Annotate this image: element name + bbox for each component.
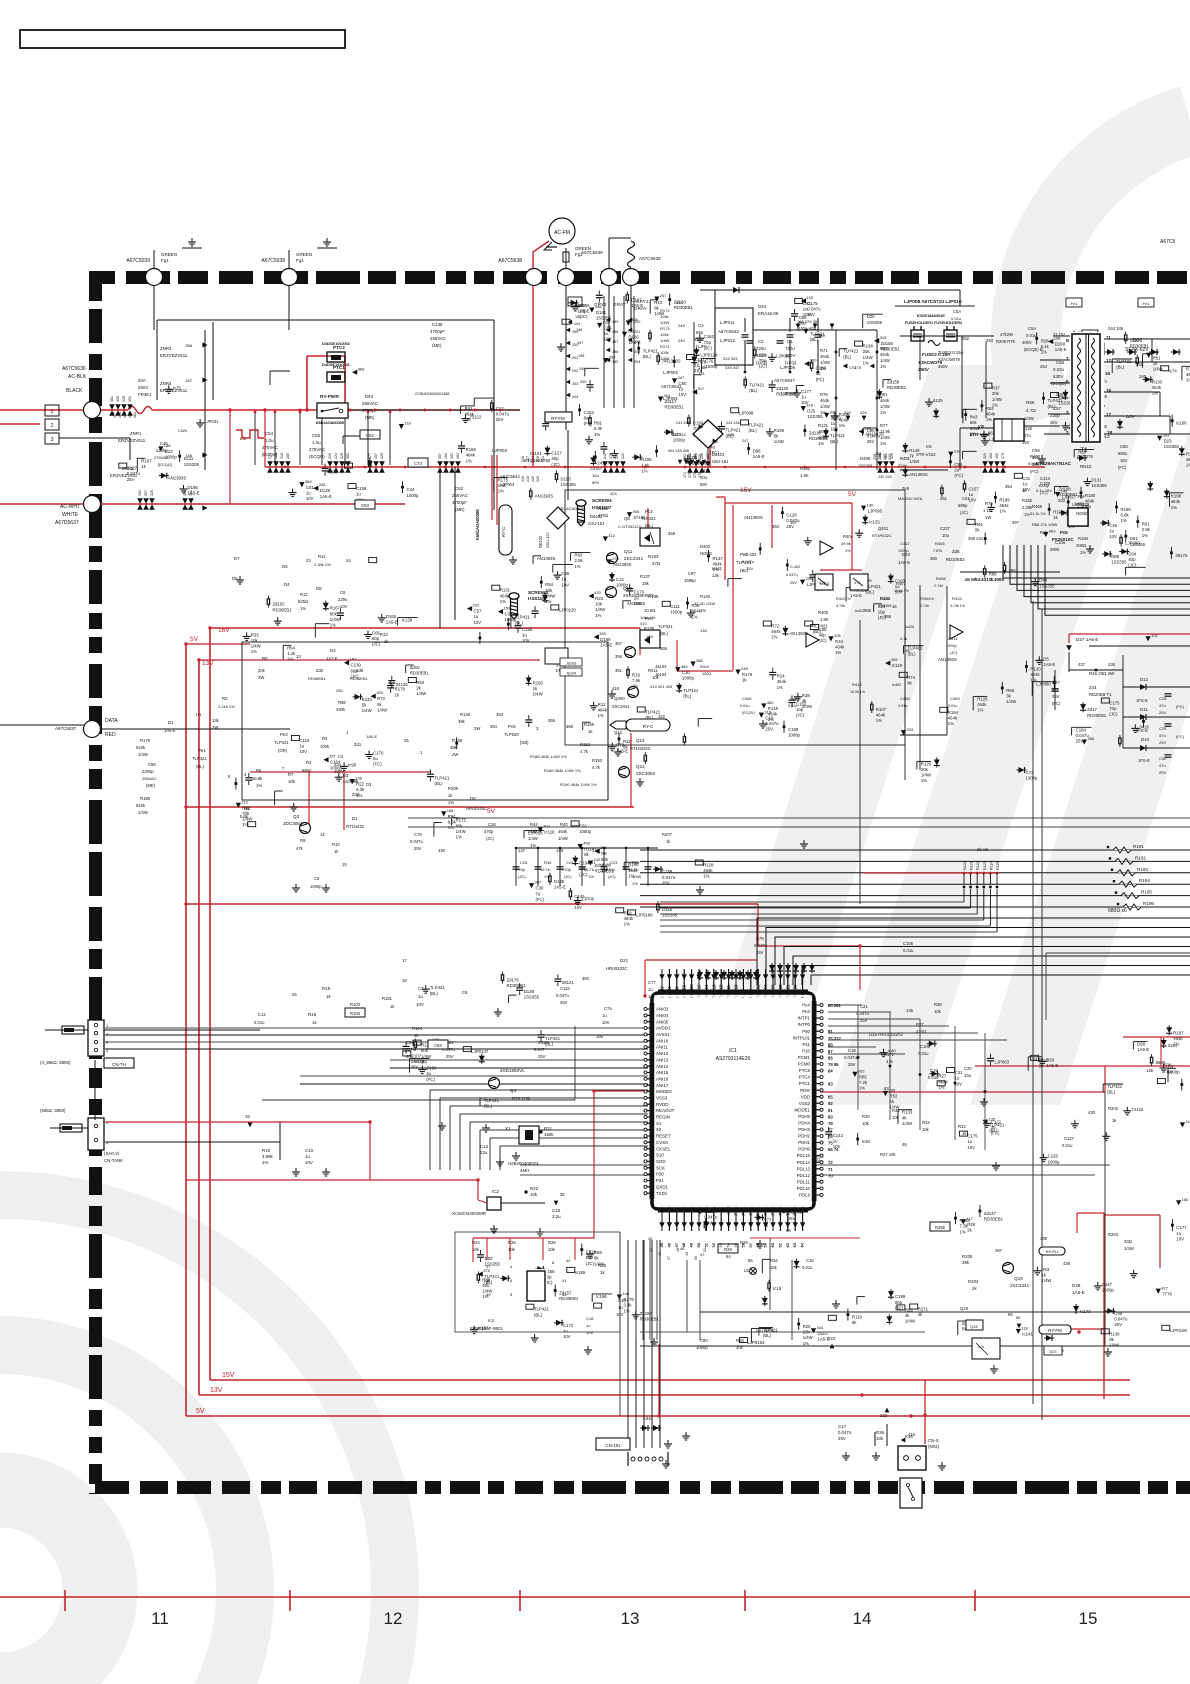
svg-text:516k: 516k [136,803,146,808]
svg-text:C62: C62 [455,486,464,491]
svg-text:AN1393S: AN1393S [744,515,763,520]
svg-text:315: 315 [880,335,887,340]
svg-text:0.047u: 0.047u [867,434,881,439]
svg-text:47u: 47u [1159,703,1166,708]
svg-text:0.01u: 0.01u [802,1265,813,1270]
svg-text:WHITE: WHITE [62,512,79,518]
svg-text:C5A: C5A [1028,326,1036,331]
svg-text:49: 49 [685,1252,689,1256]
svg-text:91: 91 [828,1029,833,1034]
svg-text:R121: R121 [970,861,974,870]
svg-text:R34: R34 [770,1258,778,1263]
svg-text:464k: 464k [1030,672,1040,677]
svg-text:80k: 80k [330,611,338,616]
svg-text:366: 366 [864,608,872,613]
svg-text:464k: 464k [598,707,608,712]
svg-text:47k2W: 47k2W [1000,332,1013,337]
svg-text:1%: 1% [598,713,604,718]
svg-text:50p: 50p [586,1255,594,1260]
svg-text:1000p: 1000p [1026,776,1039,781]
svg-text:PDL11: PDL11 [797,1179,811,1184]
svg-text:C199: C199 [895,1294,906,1299]
svg-text:1A5-E: 1A5-E [1043,662,1055,667]
svg-text:Q401: Q401 [878,526,889,531]
svg-text:Ic462: Ic462 [892,683,901,687]
svg-text:R123: R123 [983,861,987,870]
svg-text:D126: D126 [320,488,331,493]
svg-text:0.01u: 0.01u [740,704,750,708]
svg-text:50: 50 [696,1242,701,1247]
svg-text:1A5-E: 1A5-E [366,734,377,739]
svg-text:C408: C408 [900,696,910,701]
svg-text:RM: RM [1078,494,1085,499]
svg-text:(BL): (BL) [660,631,669,636]
svg-text:CN-TANK: CN-TANK [104,1158,123,1163]
svg-text:10V: 10V [1109,534,1117,539]
svg-text:1/4W: 1/4W [921,773,932,778]
svg-text:C77: C77 [648,980,656,985]
svg-text:AN1393S: AN1393S [168,476,187,481]
svg-text:LJP0147: LJP0147 [471,1049,489,1054]
svg-text:39k: 39k [962,1260,970,1265]
svg-text:1/4W: 1/4W [1153,367,1164,372]
svg-text:10V: 10V [299,749,307,754]
svg-text:357: 357 [615,641,623,646]
svg-text:D88: D88 [1111,554,1119,559]
svg-text:Q18: Q18 [970,1325,977,1329]
svg-text:Q12: Q12 [636,764,645,769]
svg-text:R194: R194 [948,710,959,715]
svg-text:464k: 464k [938,1079,948,1084]
svg-text:C76: C76 [705,359,713,364]
svg-text:224 333: 224 333 [723,356,738,361]
svg-text:R31: R31 [892,1108,900,1113]
svg-text:25V: 25V [496,417,504,422]
svg-text:C80: C80 [819,627,827,632]
svg-text:C155: C155 [522,627,533,632]
svg-text:1/4W: 1/4W [880,358,890,363]
svg-text:R39: R39 [632,860,640,865]
svg-text:220: 220 [531,476,535,482]
svg-text:25V: 25V [560,1000,568,1005]
svg-text:R78: R78 [985,501,993,506]
svg-text:366: 366 [566,724,574,729]
svg-text:3.74k 1%: 3.74k 1% [950,604,966,608]
svg-text:1A5-E: 1A5-E [164,728,176,733]
svg-text:222: 222 [621,453,625,459]
svg-text:AC-FM: AC-FM [554,230,570,236]
svg-text:1%: 1% [977,708,983,713]
svg-text:PDL15: PDL15 [797,1153,811,1158]
svg-text:199: 199 [572,330,578,334]
svg-text:(BL): (BL) [534,1312,543,1317]
svg-text:3: 3 [51,437,54,443]
svg-text:275VAC: 275VAC [154,455,169,460]
svg-text:HSS1167: HSS1167 [528,596,548,601]
svg-text:77: 77 [828,1128,833,1133]
svg-text:D155: D155 [662,907,673,912]
svg-text:C3: C3 [698,323,704,328]
svg-text:104: 104 [574,322,580,326]
svg-text:R5: R5 [262,656,268,661]
svg-text:64: 64 [726,1254,731,1259]
svg-text:1u: 1u [1176,1231,1181,1236]
svg-text:R174: R174 [660,344,670,349]
svg-text:R54: R54 [545,582,553,587]
svg-text:0.01u: 0.01u [903,948,914,953]
svg-text:2.5k: 2.5k [575,558,584,563]
svg-text:1%: 1% [820,366,826,371]
svg-text:R492: R492 [800,466,811,471]
svg-text:1u: 1u [305,1154,310,1159]
svg-text:0.047u: 0.047u [838,1430,852,1435]
svg-text:339 347: 339 347 [725,365,740,370]
svg-text:D135: D135 [554,879,565,884]
svg-text:FUSEHOLDER1 FUSEHOLDER2: FUSEHOLDER1 FUSEHOLDER2 [905,321,962,325]
svg-text:1/4W: 1/4W [1024,416,1034,421]
svg-text:10u: 10u [942,533,950,538]
svg-text:10V: 10V [306,496,314,501]
svg-text:MA4047-MTA: MA4047-MTA [898,496,923,501]
svg-text:464k: 464k [948,715,958,720]
svg-text:C16: C16 [618,1298,626,1303]
svg-text:PCM1: PCM1 [798,1055,811,1060]
svg-text:25V: 25V [1159,740,1166,745]
svg-text:4700pF: 4700pF [452,500,467,505]
svg-text:15V: 15V [222,1372,235,1379]
svg-text:47: 47 [667,1256,671,1260]
svg-text:10k: 10k [548,1247,556,1252]
svg-text:383: 383 [582,976,590,981]
svg-text:229u: 229u [338,597,348,602]
svg-text:152: 152 [450,453,454,459]
svg-text:P30: P30 [656,1172,664,1177]
svg-text:4.7k: 4.7k [580,749,589,754]
svg-text:LJP012: LJP012 [720,338,735,343]
svg-text:464k: 464k [624,916,634,921]
svg-text:1/4W: 1/4W [660,320,670,325]
svg-text:A67C6947: A67C6947 [774,378,795,383]
svg-text:360: 360 [930,556,938,561]
svg-text:TLP421: TLP421 [683,688,699,693]
svg-text:202: 202 [572,369,578,373]
svg-text:C142: C142 [833,1133,844,1138]
svg-text:C2: C2 [758,339,764,344]
svg-text:PS2501KC: PS2501KC [1052,537,1074,542]
svg-text:2u: 2u [954,467,959,472]
svg-text:15: 15 [1105,371,1111,376]
svg-text:2W: 2W [212,725,218,730]
svg-text:16V: 16V [1120,458,1128,463]
svg-text:10p: 10p [579,309,587,314]
svg-text:42: 42 [562,1292,567,1297]
svg-text:362: 362 [693,454,697,460]
svg-text:PDH2: PDH2 [798,1134,810,1139]
svg-text:GRAY: GRAY [634,306,647,311]
svg-text:187: 187 [185,378,192,383]
svg-text:4.7k: 4.7k [592,765,601,770]
svg-text:Pe2: Pe2 [280,732,288,737]
svg-text:D27 1A5-E: D27 1A5-E [1076,637,1098,642]
svg-text:Ic19: Ic19 [773,1286,782,1291]
svg-text:175: 175 [854,365,861,370]
svg-text:C118: C118 [538,1040,548,1045]
svg-text:1%: 1% [839,423,845,428]
svg-text:1000p: 1000p [1102,1288,1115,1293]
svg-text:R18: R18 [322,986,331,991]
svg-text:249: 249 [678,338,685,343]
svg-text:R180: R180 [1085,493,1096,498]
svg-text:1u: 1u [801,395,806,400]
svg-text:TLP421: TLP421 [430,985,446,990]
svg-text:R108: R108 [641,457,652,462]
svg-text:RD30EB1: RD30EB1 [887,385,907,390]
svg-text:Zd1: Zd1 [354,742,362,747]
svg-text:13k: 13k [212,718,220,723]
svg-text:C111: C111 [670,604,680,609]
svg-text:219: 219 [536,456,540,462]
svg-text:16.7k: 16.7k [818,429,829,434]
svg-text:285: 285 [286,453,290,459]
svg-text:(ME): (ME) [455,507,465,512]
svg-text:R24: R24 [835,639,843,644]
svg-text:Q18: Q18 [960,1306,969,1311]
svg-text:464k: 464k [999,503,1009,508]
svg-text:459 231: 459 231 [968,536,984,541]
svg-text:185: 185 [646,634,653,639]
svg-text:ANI05: ANI05 [656,1019,669,1024]
svg-text:1%: 1% [948,721,954,726]
svg-text:1k: 1k [326,994,331,999]
svg-text:R91: R91 [975,522,983,527]
svg-text:R161: R161 [382,996,393,1001]
svg-text:R203: R203 [1108,1232,1119,1237]
svg-text:C115: C115 [560,986,570,991]
svg-text:25V: 25V [406,1054,414,1059]
svg-text:25V: 25V [446,1054,454,1059]
svg-text:10V: 10V [602,1020,610,1025]
svg-text:15: 15 [342,862,347,867]
svg-text:RY-PLt: RY-PLt [1046,1249,1059,1254]
svg-text:(JC): (JC) [819,638,828,643]
svg-text:(50kΩ, 3950): (50kΩ, 3950) [40,1108,66,1113]
svg-text:0.047u: 0.047u [765,721,779,726]
svg-text:(FC): (FC) [584,421,593,426]
svg-text:680p: 680p [302,768,312,773]
svg-text:72: 72 [828,1160,833,1165]
svg-text:1%: 1% [818,441,824,446]
svg-text:416: 416 [908,1432,916,1437]
svg-text:D53: D53 [485,1256,493,1261]
svg-text:R178: R178 [140,738,151,743]
svg-text:HRU0103C: HRU0103C [466,806,487,811]
svg-text:R163: R163 [648,554,659,559]
svg-text:344 345: 344 345 [1108,326,1124,331]
svg-text:199: 199 [579,367,585,371]
svg-text:BLACK: BLACK [66,388,83,394]
svg-text:(BL): (BL) [645,523,654,528]
svg-text:1%: 1% [876,718,882,723]
svg-text:Pe1: Pe1 [198,748,206,753]
svg-text:83: 83 [828,1082,833,1087]
svg-text:5V: 5V [848,491,857,498]
svg-text:1SS355: 1SS355 [662,913,678,918]
svg-text:R188 464k 1/4W 1%: R188 464k 1/4W 1% [530,754,567,759]
svg-text:250: 250 [336,688,343,693]
svg-text:Q3: Q3 [293,814,300,819]
svg-text:203: 203 [572,382,578,386]
svg-text:1%: 1% [594,432,600,437]
svg-text:R46 33Ω 2W: R46 33Ω 2W [1089,671,1115,676]
svg-text:226: 226 [536,476,540,482]
svg-text:1000p: 1000p [682,675,695,680]
svg-text:STR-V152: STR-V152 [970,432,991,437]
svg-text:Da101: Da101 [712,452,725,457]
svg-text:2.8k: 2.8k [1142,527,1151,532]
svg-text:R66: R66 [1006,688,1014,693]
svg-text:H2B400400024: H2B400400024 [508,1161,539,1166]
svg-text:1A5-E: 1A5-E [600,643,612,648]
svg-text:10V: 10V [340,604,348,609]
svg-text:C23: C23 [610,860,618,865]
svg-text:25V: 25V [1076,739,1084,744]
svg-text:C158: C158 [356,486,367,491]
svg-text:1%: 1% [803,1341,809,1346]
svg-text:58: 58 [755,1242,760,1247]
svg-text:0.047u: 0.047u [556,993,569,998]
svg-text:422: 422 [658,714,666,719]
svg-text:1%: 1% [771,635,777,640]
svg-text:Ic173: Ic173 [1080,1309,1091,1314]
svg-text:25V: 25V [756,950,764,955]
svg-text:TLP421: TLP421 [1116,359,1132,364]
svg-text:FUSE2 0.15A: FUSE2 0.15A [922,352,951,357]
svg-text:59: 59 [763,1242,768,1247]
svg-text:R25: R25 [508,1240,516,1245]
svg-text:7.2k: 7.2k [859,1080,868,1085]
svg-text:Ja103: Ja103 [566,662,576,666]
svg-text:R190 464k 1/4W 1%: R190 464k 1/4W 1% [560,782,597,787]
svg-text:25V: 25V [838,1436,846,1441]
svg-text:LJP095: LJP095 [868,508,883,513]
svg-text:C57: C57 [474,609,482,614]
svg-text:R3: R3 [306,760,312,765]
svg-text:0.01u: 0.01u [1062,1143,1073,1148]
svg-text:RY-PWR: RY-PWR [320,394,339,400]
svg-text:(XA0-2): (XA0-2) [104,1151,120,1156]
svg-text:R125: R125 [996,861,1000,870]
svg-text:R72: R72 [377,696,385,701]
svg-text:247: 247 [678,375,685,380]
svg-text:326: 326 [150,490,154,496]
svg-text:6125: 6125 [933,398,943,403]
svg-text:RY-C: RY-C [643,724,654,729]
svg-text:1%: 1% [623,1308,629,1313]
svg-text:R126: R126 [977,696,988,701]
svg-text:195: 195 [575,315,581,319]
svg-text:A67C5638: A67C5638 [498,258,522,264]
svg-text:65: 65 [748,1258,753,1263]
svg-text:247: 247 [742,439,748,443]
svg-text:C413: C413 [1040,476,1051,481]
svg-text:1A5-E: 1A5-E [1055,347,1067,352]
svg-text:168 379 381: 168 379 381 [797,319,820,324]
svg-text:2W: 2W [474,726,480,731]
svg-text:242: 242 [603,453,607,459]
svg-text:TLP421: TLP421 [726,428,742,433]
svg-text:RD30EB1: RD30EB1 [272,607,292,612]
svg-text:1%: 1% [880,410,886,415]
svg-text:RVDD: RVDD [656,1102,668,1107]
svg-text:46: 46 [666,1242,671,1247]
svg-text:256: 256 [1056,392,1064,397]
svg-text:1000p: 1000p [1048,1159,1061,1164]
svg-text:AVSS1: AVSS1 [656,1032,670,1037]
svg-text:(JC): (JC) [960,510,969,515]
svg-text:C54: C54 [265,431,274,436]
svg-text:1/4W: 1/4W [660,356,670,361]
svg-text:0.047u: 0.047u [1114,1317,1128,1322]
svg-text:1SS355: 1SS355 [878,604,892,608]
svg-text:(FC): (FC) [1176,734,1185,739]
svg-text:[GB]: [GB] [520,740,528,745]
svg-text:D131: D131 [1091,478,1102,483]
svg-text:LJP080: LJP080 [1036,682,1051,687]
svg-text:R469: R469 [1032,504,1043,509]
svg-text:R193: R193 [1137,867,1148,872]
svg-text:Ic123: Ic123 [414,1059,425,1064]
svg-text:1u: 1u [474,614,479,619]
svg-text:39k: 39k [458,719,466,724]
svg-text:1%: 1% [1171,505,1177,510]
svg-text:8u: 8u [584,416,589,421]
svg-text:1%: 1% [700,608,706,613]
svg-text:D401: D401 [880,596,890,601]
svg-text:0.01u: 0.01u [1026,333,1037,338]
svg-text:C128: C128 [786,513,797,518]
svg-text:C73: C73 [414,461,422,466]
svg-text:C145: C145 [574,894,585,899]
svg-text:C7: C7 [418,986,424,991]
svg-text:10k: 10k [1166,1069,1172,1074]
svg-text:330k: 330k [336,707,346,712]
svg-text:C25: C25 [520,860,528,865]
svg-text:244 246: 244 246 [726,421,740,425]
svg-text:1/4W: 1/4W [632,874,642,879]
svg-text:R77: R77 [880,423,888,428]
svg-text:0.047u: 0.047u [410,839,423,844]
svg-text:C177: C177 [1176,1225,1187,1230]
svg-text:1/4W: 1/4W [803,1335,814,1340]
svg-text:2W: 2W [452,752,458,757]
svg-text:13: 13 [621,1609,640,1628]
svg-text:INTP1: INTP1 [798,1016,811,1021]
svg-text:VDD: VDD [801,1094,810,1099]
svg-text:(BL): (BL) [830,439,839,444]
svg-text:1%: 1% [1142,533,1148,538]
svg-text:ZNR4: ZNR4 [160,381,172,386]
svg-text:200: 200 [580,380,586,384]
svg-text:3114: 3114 [1168,1043,1178,1048]
svg-text:106: 106 [834,633,841,638]
svg-text:R148: R148 [452,738,463,743]
svg-text:254: 254 [1040,364,1048,369]
svg-text:71: 71 [828,1167,833,1172]
svg-text:1%: 1% [1186,463,1190,468]
svg-text:1SS355: 1SS355 [184,462,200,467]
svg-text:(BL): (BL) [434,781,443,786]
svg-text:20k: 20k [992,391,1000,396]
